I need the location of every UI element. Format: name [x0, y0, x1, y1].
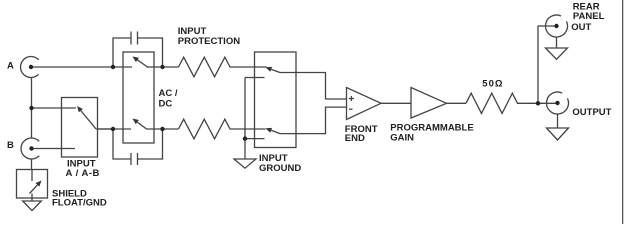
svg-text:PROTECTION: PROTECTION: [178, 36, 240, 47]
svg-text:PANEL: PANEL: [573, 11, 605, 22]
svg-text:50Ω: 50Ω: [482, 79, 503, 90]
svg-text:GROUND: GROUND: [259, 163, 301, 174]
svg-text:B: B: [7, 140, 14, 151]
svg-text:GAIN: GAIN: [390, 133, 414, 144]
svg-text:FLOAT/GND: FLOAT/GND: [52, 198, 107, 209]
svg-text:AC /: AC /: [159, 88, 178, 99]
svg-text:DC: DC: [159, 98, 173, 109]
svg-text:OUTPUT: OUTPUT: [572, 107, 611, 118]
svg-text:A: A: [7, 60, 14, 71]
svg-text:A / A-B: A / A-B: [65, 168, 99, 179]
svg-text:OUT: OUT: [571, 22, 591, 33]
svg-text:END: END: [345, 133, 365, 144]
